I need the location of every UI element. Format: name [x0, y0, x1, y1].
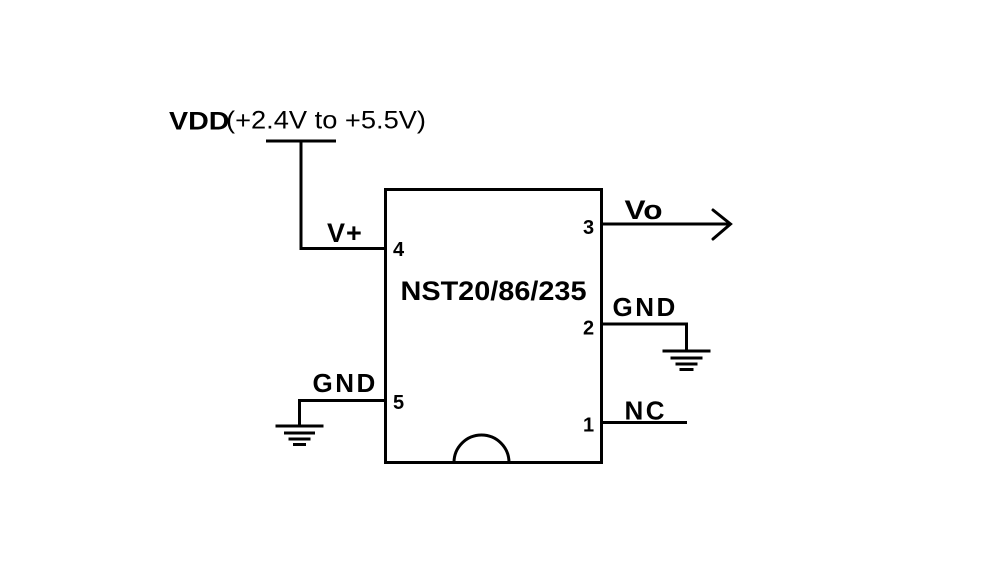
svg-text:V+: V+	[327, 218, 363, 248]
svg-text:1: 1	[583, 415, 594, 437]
svg-text:2: 2	[583, 318, 594, 340]
svg-text:5: 5	[393, 392, 404, 414]
wire pin 2 to ground (horizontal)	[602, 323, 687, 326]
op-amp IC U1 body	[386, 190, 602, 463]
svg-text:GND: GND	[313, 368, 378, 398]
IC orientation notch (semicircle)	[454, 435, 509, 463]
svg-text:NC: NC	[625, 396, 668, 426]
wire pin 1 NC	[602, 421, 688, 424]
svg-text:VDD: VDD	[169, 108, 230, 136]
svg-text:(+2.4V to +5.5V): (+2.4V to +5.5V)	[226, 107, 426, 135]
wire pin 5 to ground (vertical)	[298, 399, 301, 426]
ground symbol (left, pin 5)	[276, 426, 324, 445]
svg-text:Vo: Vo	[625, 195, 663, 225]
wire VDD to pin 4 (horizontal)	[300, 247, 386, 250]
svg-text:NST20/86/235: NST20/86/235	[401, 276, 587, 306]
wire pin 5 to ground (horizontal)	[300, 399, 386, 402]
power symbol VDD bar	[266, 140, 336, 143]
svg-text:3: 3	[583, 217, 594, 239]
wire VDD to pin 4 (vertical)	[300, 141, 303, 247]
wire pin 2 to ground (vertical)	[685, 323, 688, 352]
wire pin 3 Vo output with arrowhead	[602, 210, 731, 239]
svg-text:GND: GND	[613, 292, 678, 322]
ground symbol (right, pin 2)	[663, 351, 711, 370]
svg-text:4: 4	[393, 239, 405, 261]
